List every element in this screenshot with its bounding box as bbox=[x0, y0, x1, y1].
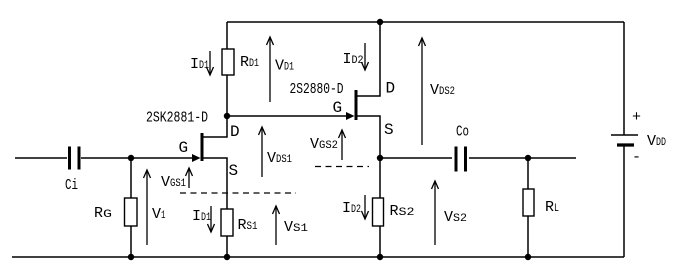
wire RS2 to ground bbox=[379, 226, 381, 257]
arrow VS1 bbox=[273, 206, 280, 245]
label VGS1 bbox=[161, 174, 186, 191]
ground node RS1 bbox=[224, 254, 230, 260]
label ID2 top bbox=[343, 51, 364, 68]
arrow V1 bbox=[144, 170, 151, 245]
svg-text:D: D bbox=[386, 80, 396, 98]
battery VDD plate short bbox=[617, 143, 634, 146]
arrow VGS1 bbox=[186, 168, 193, 188]
svg-text:2SK2881-D: 2SK2881-D bbox=[146, 111, 208, 127]
arrow VD1 bbox=[267, 37, 274, 102]
label VD1 bbox=[275, 58, 294, 75]
label VS2 bbox=[444, 209, 467, 226]
resistor RS1 bbox=[221, 209, 233, 236]
arrow ID2 bottom bbox=[362, 195, 369, 219]
wire node to gate Q2 bbox=[227, 115, 350, 117]
label ID2 bottom bbox=[342, 200, 361, 217]
label RG bbox=[94, 205, 112, 222]
resistor RS2 bbox=[373, 198, 384, 226]
label V1 bbox=[152, 206, 166, 223]
transistor Q1 2SK2881-D bbox=[201, 133, 204, 161]
svg-text:2S2880-D: 2S2880-D bbox=[290, 82, 344, 98]
arrow VGS2 bbox=[339, 130, 346, 160]
wire input to gate Q1 bbox=[81, 157, 196, 159]
wire RL to ground bbox=[527, 216, 529, 257]
resistor RD1 bbox=[222, 49, 234, 75]
arrow VS2 bbox=[432, 181, 439, 245]
dashed line source level 2 bbox=[315, 166, 369, 168]
arrow ID1 bottom bbox=[208, 206, 215, 232]
capacitor Co bbox=[456, 147, 466, 172]
node top rail bbox=[377, 19, 383, 25]
resistor RG bbox=[125, 198, 138, 226]
wire battery top bbox=[623, 22, 625, 135]
ground node RG bbox=[128, 254, 134, 260]
wire bottom ground rail bbox=[12, 256, 624, 258]
wire input left bbox=[15, 157, 67, 159]
svg-text:D: D bbox=[230, 123, 240, 141]
arrow ID2 top bbox=[362, 43, 369, 70]
wire RL branch bbox=[527, 158, 529, 189]
label ID1 top bbox=[190, 56, 209, 73]
arrow VDS1 bbox=[259, 127, 266, 177]
label plus bbox=[632, 109, 641, 126]
wire battery bottom bbox=[623, 146, 625, 258]
label VS1 bbox=[284, 219, 308, 236]
label VDS1 bbox=[267, 150, 292, 167]
gate arrowhead Q1 bbox=[192, 154, 201, 162]
svg-text:+: + bbox=[632, 109, 641, 126]
label minus bbox=[632, 149, 641, 166]
label 2SK2881-D bbox=[146, 111, 208, 127]
arrow VDS2 bbox=[419, 38, 426, 145]
wire top rail bbox=[227, 21, 624, 23]
wire Co to RL bbox=[469, 157, 576, 159]
wire RS2 branch bbox=[379, 158, 381, 198]
svg-text:S: S bbox=[229, 162, 239, 180]
ground node RL bbox=[525, 254, 531, 260]
arrow ID1 top bbox=[207, 51, 214, 75]
node output bbox=[525, 155, 531, 161]
wire RD1 bottom to Q1 drain bbox=[202, 75, 227, 137]
svg-text:-: - bbox=[632, 149, 641, 166]
wire RG to ground bbox=[130, 226, 132, 257]
label Co bbox=[456, 124, 469, 141]
label VDS2 bbox=[430, 82, 455, 99]
ground node RS2 bbox=[377, 254, 383, 260]
label D Q1 bbox=[230, 123, 240, 141]
node input bbox=[128, 155, 134, 161]
resistor RL bbox=[523, 189, 534, 216]
label G Q2 bbox=[333, 99, 343, 117]
label S Q2 bbox=[384, 121, 394, 139]
node Q2 source bbox=[377, 155, 383, 161]
label VDD bbox=[647, 133, 666, 150]
capacitor Ci bbox=[70, 147, 80, 170]
label Ci bbox=[65, 177, 78, 194]
wire RD1 top bbox=[226, 22, 228, 49]
label RL bbox=[545, 199, 559, 216]
svg-text:S: S bbox=[384, 121, 394, 139]
transistor Q2 2S2880-D bbox=[355, 90, 358, 120]
label RS1 bbox=[238, 217, 258, 234]
wire output to Co bbox=[380, 157, 452, 159]
label RD1 bbox=[240, 54, 259, 71]
label VGS2 bbox=[310, 136, 338, 153]
dashed line source level 1 bbox=[180, 192, 296, 194]
svg-text:Ci: Ci bbox=[65, 177, 78, 194]
svg-text:Co: Co bbox=[456, 124, 469, 141]
label ID1 bottom bbox=[192, 208, 211, 225]
wire Q2 source bbox=[356, 116, 380, 158]
label S Q1 bbox=[229, 162, 239, 180]
gate arrowhead Q2 bbox=[346, 112, 355, 120]
wire RS1 to ground bbox=[226, 236, 228, 257]
battery VDD plate long bbox=[611, 134, 638, 136]
wire RG branch bbox=[130, 158, 132, 198]
node Q1 drain bbox=[224, 113, 230, 119]
svg-text:G: G bbox=[333, 99, 343, 117]
svg-text:G: G bbox=[179, 139, 189, 157]
label G Q1 bbox=[179, 139, 189, 157]
wire Q2 drain bbox=[356, 22, 380, 96]
label D Q2 bbox=[386, 80, 396, 98]
wire Q1 source bbox=[202, 158, 227, 209]
label RS2 bbox=[390, 203, 415, 220]
label 2S2880-D bbox=[290, 82, 344, 98]
